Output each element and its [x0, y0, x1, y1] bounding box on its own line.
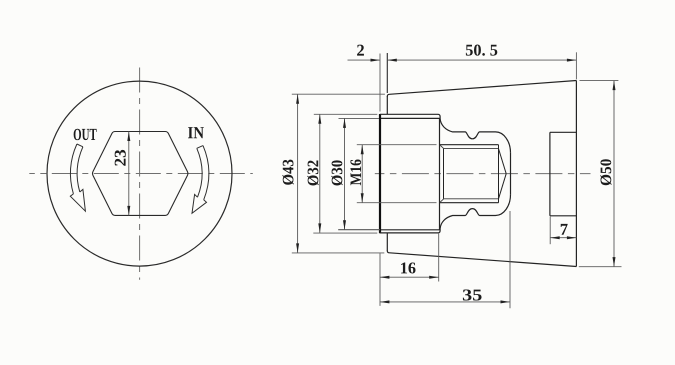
- outer circle Ø50 face: [47, 81, 232, 266]
- Ø43 ext line bottom: [292, 252, 385, 254]
- ext line x510 bottom (35): [509, 211, 511, 308]
- Ø32 dim line: [319, 114, 321, 233]
- Ø43 arrow up: [296, 94, 299, 104]
- Ø32 ext line top: [314, 113, 378, 115]
- dim 50.5 line: [387, 59, 576, 61]
- dimension 23 arrow down: [127, 206, 130, 216]
- Ø32 arrow down: [318, 223, 321, 233]
- recess rectangle bottom line: [550, 215, 577, 217]
- cone top slant edge: [387, 81, 576, 98]
- M16 arrow up: [361, 145, 364, 155]
- thread root top line: [444, 148, 499, 150]
- dim line 2 left tail: [348, 59, 380, 61]
- Ø50 ext line bottom: [579, 266, 622, 268]
- M16 ext line top: [357, 144, 437, 146]
- ext line x576.4 top: [575, 52, 577, 79]
- ext line x387.3 top: [386, 53, 388, 93]
- Ø30 text: [331, 160, 342, 185]
- thread root bottom line: [444, 198, 499, 200]
- Ø32 arrow up: [318, 114, 321, 124]
- centerline horizontal (side view): [375, 173, 591, 175]
- dim 16 right arrow: [429, 276, 439, 279]
- Ø30 dim line: [344, 118, 346, 229]
- Ø43 ext line top: [292, 93, 385, 95]
- text 50.5: [466, 45, 497, 56]
- text 2: [357, 45, 364, 56]
- Ø30 arrow up: [343, 118, 346, 128]
- ext line x379.9 bottom (16/35): [379, 253, 381, 306]
- centerline vertical (left view): [139, 68, 141, 280]
- thread start chamfer top: [440, 145, 444, 149]
- M16 dim line: [361, 145, 363, 203]
- Ø50 dim line: [613, 81, 615, 267]
- Ø50 ext line top: [580, 80, 619, 82]
- M16 ext line bottom: [357, 202, 437, 204]
- boss right face vertical: [510, 153, 512, 194]
- dim 35 line: [380, 301, 510, 303]
- cone right face: [575, 81, 577, 267]
- thread end chamfer bottom slant: [499, 174, 507, 199]
- thread start chamfer bottom: [440, 199, 444, 203]
- cone left face lower segment: [386, 233, 388, 251]
- thread right end vertical: [498, 145, 500, 203]
- dim 35 left arrow: [380, 300, 390, 303]
- dim 35 text: [463, 289, 482, 300]
- neck bottom profile with groove notch: [440, 194, 510, 229]
- ext line x438.7 bottom (16): [438, 234, 440, 282]
- Ø43 dim line: [297, 94, 299, 253]
- dim 7 line: [550, 237, 576, 239]
- thread left vertical: [443, 149, 445, 199]
- rotation arrow right (IN): [192, 146, 209, 214]
- rotation arrow left (OUT): [70, 144, 85, 211]
- thread M16 crest top line: [440, 144, 499, 146]
- thread M16 crest bottom line: [440, 202, 499, 204]
- thread end chamfer top slant: [499, 149, 507, 174]
- dimension 23 line: [128, 132, 130, 216]
- dim 2 arrow (outside, pointing right): [371, 59, 381, 62]
- dimension 23 arrow up: [127, 132, 130, 142]
- label IN: [188, 127, 204, 138]
- M16 text: [350, 160, 361, 186]
- dim 16 line: [380, 276, 439, 278]
- ext line x380 top: [379, 54, 381, 112]
- recess rectangle top line: [550, 131, 577, 133]
- dim 16 left arrow: [380, 276, 390, 279]
- Ø30 arrow down: [343, 220, 346, 230]
- Ø30 ext line bottom: [338, 229, 380, 231]
- flange Ø32 left face (thick): [379, 114, 381, 233]
- neck top profile with groove notch: [440, 119, 510, 153]
- dimension 23 text: [115, 150, 126, 166]
- Ø43 text: [282, 160, 293, 185]
- dim 7 left arrow: [550, 236, 560, 239]
- dim 7 right arrow: [567, 236, 577, 239]
- dim 7 text: [561, 224, 568, 235]
- dim 50.5 left arrow (pointing left): [387, 59, 397, 62]
- cone left face upper segment: [386, 96, 388, 114]
- Ø30 ext line top: [339, 117, 380, 119]
- M16 arrow down: [361, 193, 364, 203]
- centerline horizontal (left view): [29, 173, 253, 175]
- Ø32 text: [307, 160, 318, 185]
- cone bottom slant edge: [387, 250, 576, 266]
- Ø32 ext line bottom: [313, 232, 377, 234]
- hexagon 23 A/F: [93, 132, 188, 216]
- flange Ø32 bottom edge with corner fillet: [380, 229, 440, 233]
- dim 35 right arrow: [501, 300, 511, 303]
- Ø50 arrow up: [613, 81, 616, 91]
- inner Ø30 rectangle: [381, 118, 440, 229]
- Ø50 text: [600, 159, 611, 185]
- Ø43 arrow down: [296, 243, 299, 253]
- flange Ø32 top edge with corner fillet: [380, 114, 440, 118]
- recess rectangle left vertical: [549, 132, 551, 216]
- label OUT: [74, 129, 97, 140]
- Ø50 arrow down: [613, 257, 616, 267]
- dim 7 ext line left: [549, 217, 551, 245]
- dim 16 text: [401, 262, 415, 273]
- dim 50.5 right arrow (pointing right): [567, 59, 577, 62]
